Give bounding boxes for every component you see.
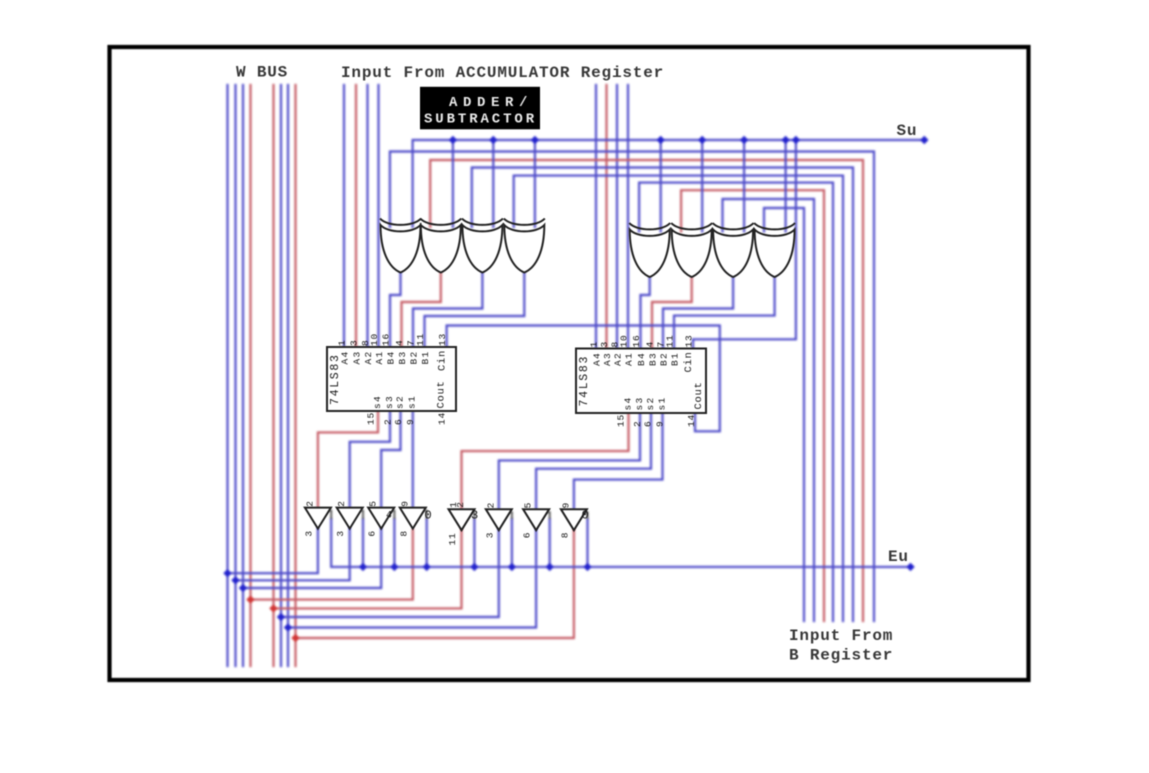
svg-text:14: 14 [437,412,448,425]
svg-text:4: 4 [386,511,392,522]
svg-text:14: 14 [686,414,697,427]
svg-text:0: 0 [425,509,432,523]
svg-text:9: 9 [399,500,410,507]
svg-text:11: 11 [665,334,676,347]
svg-text:13: 13 [437,333,448,346]
svg-text:2: 2 [632,420,643,427]
svg-text:3: 3 [484,532,495,539]
svg-text:10: 10 [619,334,630,347]
svg-text:8: 8 [559,532,570,539]
svg-text:s3: s3 [384,395,395,409]
svg-text:5: 5 [523,502,534,509]
svg-text:B1: B1 [420,350,431,364]
svg-text:A4: A4 [340,350,351,364]
svg-text:6: 6 [643,420,654,427]
svg-text:B3: B3 [648,352,659,366]
svg-text:6: 6 [367,530,378,537]
svg-text:A1: A1 [374,350,385,364]
svg-text:2: 2 [336,500,347,507]
svg-text:A1: A1 [624,352,635,366]
svg-text:2: 2 [383,418,394,425]
svg-text:3: 3 [471,509,478,523]
svg-text:s2: s2 [395,395,406,409]
svg-text:74LS83: 74LS83 [578,355,591,407]
svg-text:3: 3 [303,530,314,537]
svg-text:B4: B4 [636,352,647,366]
svg-text:9: 9 [405,418,416,425]
svg-text:3: 3 [599,341,610,348]
svg-text:10: 10 [369,333,380,346]
svg-text:s1: s1 [657,396,668,410]
svg-text:SUBTRACTOR: SUBTRACTOR [424,112,537,128]
svg-text:2: 2 [485,502,496,509]
svg-text:Cout: Cout [693,381,705,409]
svg-text:Input From: Input From [789,627,893,645]
svg-text:Eu: Eu [888,548,909,566]
svg-text:s4: s4 [372,395,383,409]
svg-text:B Register: B Register [789,647,893,665]
svg-text:2: 2 [304,500,315,507]
svg-text:W BUS: W BUS [236,64,288,82]
svg-text:1: 1 [589,341,600,348]
svg-text:s1: s1 [407,395,418,409]
svg-text:A2: A2 [613,352,624,366]
svg-text:A3: A3 [602,352,613,366]
svg-text:Input From ACCUMULATOR Registe: Input From ACCUMULATOR Register [341,64,664,82]
svg-text:B1: B1 [670,352,681,366]
svg-text:B2: B2 [659,352,670,366]
svg-text:6: 6 [393,418,404,425]
svg-text:4: 4 [645,341,656,348]
svg-text:s4: s4 [623,396,634,410]
svg-text:9: 9 [560,502,571,509]
svg-text:2: 2 [455,501,466,508]
svg-text:ADDER/: ADDER/ [449,95,533,111]
svg-text:Cin: Cin [683,351,695,372]
svg-text:15: 15 [366,412,377,425]
svg-text:13: 13 [684,334,695,347]
svg-text:B3: B3 [397,350,408,364]
svg-text:s3: s3 [634,396,645,410]
svg-text:11: 11 [415,333,426,346]
svg-text:3: 3 [349,339,360,346]
svg-text:s2: s2 [645,396,656,410]
svg-text:Su: Su [897,122,918,140]
svg-text:8: 8 [398,530,409,537]
svg-text:15: 15 [616,414,627,427]
svg-text:B2: B2 [409,350,420,364]
svg-text:3: 3 [335,530,346,537]
svg-text:11: 11 [447,532,458,545]
svg-text:4: 4 [394,339,405,346]
svg-text:16: 16 [631,334,642,347]
svg-text:Cin: Cin [437,350,449,371]
svg-text:9: 9 [655,420,666,427]
svg-text:A3: A3 [352,350,363,364]
svg-text:B4: B4 [386,350,397,364]
svg-text:A2: A2 [363,350,374,364]
svg-text:5: 5 [368,500,379,507]
svg-text:Cout: Cout [436,380,448,408]
svg-text:1: 1 [337,339,348,346]
svg-text:16: 16 [381,333,392,346]
svg-text:A4: A4 [592,352,603,366]
svg-text:0: 0 [582,509,589,523]
svg-text:6: 6 [522,532,533,539]
